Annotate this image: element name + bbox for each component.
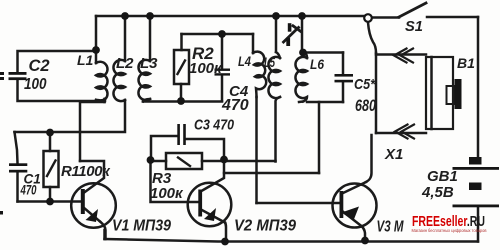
svg-text:680: 680 <box>355 97 377 115</box>
svg-text:L1: L1 <box>77 52 94 68</box>
svg-text:100к: 100к <box>150 185 184 202</box>
svg-text:L2: L2 <box>116 55 134 72</box>
svg-text:S1: S1 <box>405 18 423 35</box>
svg-text:V2 МП39: V2 МП39 <box>234 218 296 235</box>
svg-text:470: 470 <box>20 182 37 198</box>
svg-text:Магазин бесплатных цифровых то: Магазин бесплатных цифровых товаров <box>412 228 488 233</box>
svg-text:L5: L5 <box>264 54 275 70</box>
svg-text:100: 100 <box>24 76 47 93</box>
svg-text:4,5В: 4,5В <box>421 184 454 201</box>
svg-text:B1: B1 <box>457 55 475 71</box>
svg-text:L4: L4 <box>238 53 251 69</box>
svg-text:L3: L3 <box>140 55 158 72</box>
svg-text:100к: 100к <box>189 60 223 77</box>
svg-text:GB1: GB1 <box>427 168 458 185</box>
svg-text:L6: L6 <box>310 56 324 72</box>
svg-text:V1 МП39: V1 МП39 <box>112 218 171 235</box>
svg-text:R1100к: R1100к <box>61 163 111 180</box>
svg-text:C3 470: C3 470 <box>194 117 235 134</box>
svg-text:C2: C2 <box>29 57 50 75</box>
svg-text:470: 470 <box>221 97 249 114</box>
svg-text:X1: X1 <box>384 146 403 163</box>
svg-text:C5*: C5* <box>354 76 376 93</box>
svg-text:V3 М: V3 М <box>377 219 405 236</box>
